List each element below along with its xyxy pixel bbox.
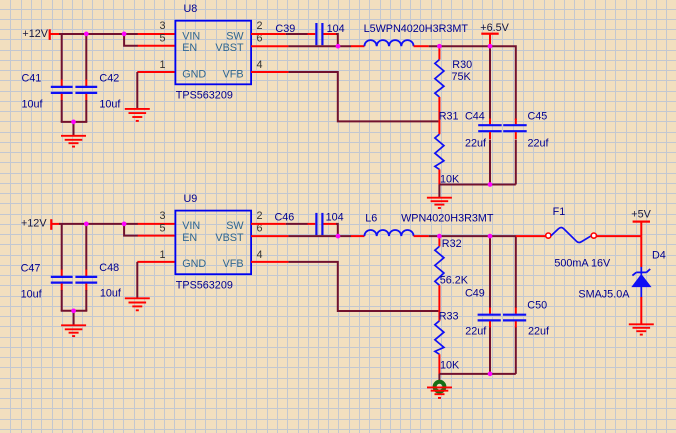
wire ground stub bbox=[73, 122, 75, 136]
ground GND2 bbox=[125, 109, 150, 121]
node junction J10 bbox=[71, 308, 76, 313]
wire L5 to rail bbox=[429, 45, 490, 47]
svg-text:GND: GND bbox=[182, 68, 206, 80]
power port +6.5V bbox=[480, 22, 509, 46]
wire +12V rail (top) bbox=[59, 33, 138, 35]
capacitor C45 bbox=[503, 119, 527, 140]
wire caps bottom rail (bottom) bbox=[61, 310, 88, 312]
svg-text:104: 104 bbox=[326, 212, 344, 224]
svg-text:SW: SW bbox=[226, 30, 244, 42]
svg-text:10uf: 10uf bbox=[21, 289, 43, 301]
svg-text:+6.5V: +6.5V bbox=[480, 22, 509, 34]
svg-text:R33: R33 bbox=[439, 311, 459, 323]
wire C47 bottom lead bbox=[61, 290, 63, 311]
capacitor C48 bbox=[75, 270, 97, 291]
ground GND3 bbox=[427, 198, 452, 208]
resistor R33 bbox=[435, 311, 444, 374]
svg-text:2: 2 bbox=[257, 20, 263, 32]
wire SW to C46 bbox=[286, 223, 308, 225]
resistor R30 bbox=[435, 46, 444, 134]
inductor L6 bbox=[351, 230, 429, 236]
node junction J2 bbox=[122, 32, 127, 37]
svg-text:22uf: 22uf bbox=[465, 137, 487, 149]
svg-text:C45: C45 bbox=[528, 110, 548, 122]
node junction J9 bbox=[122, 222, 127, 227]
svg-text:U8: U8 bbox=[184, 3, 198, 15]
svg-text:WPN4020H3R3MT: WPN4020H3R3MT bbox=[401, 212, 494, 224]
capacitor C46 bbox=[308, 213, 337, 235]
diode D4 TVS bbox=[632, 267, 650, 297]
svg-text:TPS563209: TPS563209 bbox=[176, 280, 233, 292]
wire bottom rail (bottom circuit) bbox=[439, 373, 515, 375]
svg-text:1: 1 bbox=[159, 59, 165, 71]
svg-text:C44: C44 bbox=[465, 110, 485, 122]
wire C50 drop bbox=[515, 236, 517, 308]
svg-text:D4: D4 bbox=[652, 250, 666, 262]
svg-text:10uf: 10uf bbox=[100, 288, 122, 300]
power port +12V (bottom) bbox=[21, 217, 60, 229]
pin 6 VBST bbox=[251, 45, 288, 47]
svg-text:SMAJ5.0A: SMAJ5.0A bbox=[578, 289, 630, 301]
fuse F1 bbox=[516, 228, 642, 243]
wire C42 bottom lead bbox=[85, 100, 87, 122]
wire C48 bottom lead bbox=[85, 290, 87, 311]
svg-text:10uf: 10uf bbox=[22, 99, 44, 111]
svg-text:C42: C42 bbox=[99, 73, 119, 85]
capacitor C44 bbox=[478, 119, 502, 140]
node junction J7 bbox=[488, 182, 493, 187]
svg-text:104: 104 bbox=[327, 23, 345, 35]
svg-text:2: 2 bbox=[257, 210, 263, 222]
svg-text:4: 4 bbox=[257, 59, 263, 71]
svg-text:VFB: VFB bbox=[223, 68, 244, 80]
svg-text:L6: L6 bbox=[365, 212, 377, 224]
svg-text:VFB: VFB bbox=[223, 258, 244, 270]
svg-text:10uf: 10uf bbox=[99, 99, 121, 111]
wire bottom rail (top circuit) bbox=[439, 184, 515, 186]
svg-text:R31: R31 bbox=[439, 110, 459, 122]
pin 2 SW bbox=[251, 33, 286, 35]
resistor R31 bbox=[435, 134, 444, 184]
wire ground stub R33 bbox=[438, 374, 440, 381]
svg-text:C50: C50 bbox=[527, 300, 547, 312]
wire VBST node (bottom) bbox=[288, 235, 351, 237]
svg-text:VIN: VIN bbox=[182, 220, 200, 232]
resistor R32 bbox=[435, 236, 444, 311]
pin 6 VBST bbox=[251, 235, 288, 237]
capacitor C49 bbox=[478, 308, 501, 329]
svg-text:4: 4 bbox=[257, 249, 263, 261]
pin 3 VIN bbox=[138, 33, 176, 35]
svg-text:+5V: +5V bbox=[631, 208, 651, 220]
svg-text:C48: C48 bbox=[99, 262, 119, 274]
node junction J3 bbox=[71, 120, 76, 125]
wire GND pin to ground bbox=[136, 72, 138, 109]
ground GND5 bbox=[125, 298, 150, 310]
pin 3 VIN bbox=[138, 223, 176, 225]
ground GND6 earth ring bbox=[427, 382, 452, 398]
capacitor C47 bbox=[51, 270, 73, 291]
svg-text:500mA 16V: 500mA 16V bbox=[554, 258, 611, 270]
wire C41 bottom lead bbox=[61, 100, 63, 122]
pin 4 VFB bbox=[251, 261, 288, 263]
wire C44 bottom bbox=[489, 140, 491, 185]
node junction J1 bbox=[84, 32, 89, 37]
svg-text:SW: SW bbox=[226, 220, 244, 232]
wire ground stub bbox=[73, 311, 75, 325]
ground GND4 bbox=[61, 325, 86, 336]
wire caps bottom rail (top) bbox=[61, 121, 88, 123]
wire C42 top lead bbox=[85, 34, 87, 80]
svg-text:VBST: VBST bbox=[215, 232, 244, 244]
svg-text:+12V: +12V bbox=[21, 217, 47, 229]
wire VFB feedback (bottom) bbox=[288, 262, 438, 311]
pin 5 EN bbox=[138, 235, 176, 237]
svg-text:C41: C41 bbox=[22, 73, 42, 85]
wire C46 drop to VBST bbox=[336, 224, 338, 236]
svg-text:56.2K: 56.2K bbox=[440, 275, 469, 287]
wire rail to C45 drop bbox=[490, 46, 516, 120]
wire +5V to D4 bbox=[640, 236, 642, 267]
wire C49 bottom bbox=[489, 328, 491, 374]
power port +5V bbox=[631, 208, 651, 236]
svg-text:C39: C39 bbox=[275, 23, 295, 35]
wire C41 top lead bbox=[61, 34, 63, 80]
wire VBST node bbox=[288, 45, 351, 47]
wire C50 bottom bbox=[515, 328, 517, 374]
svg-text:EN: EN bbox=[182, 42, 197, 54]
svg-text:C47: C47 bbox=[21, 263, 41, 275]
node junction J13 bbox=[488, 234, 493, 239]
svg-text:F1: F1 bbox=[553, 206, 566, 218]
power port +12V (top) bbox=[22, 28, 59, 40]
wire C47 top lead bbox=[61, 224, 63, 270]
wire VFB feedback (top) bbox=[288, 72, 438, 121]
node junction J6 bbox=[488, 44, 493, 49]
ground GND1 bbox=[61, 136, 86, 147]
inductor L5 bbox=[351, 40, 429, 46]
wire ground stub R31 bbox=[438, 185, 440, 198]
capacitor C39 bbox=[308, 23, 337, 45]
capacitor C50 bbox=[503, 308, 526, 329]
node junction J12 bbox=[437, 234, 442, 239]
svg-text:10K: 10K bbox=[440, 360, 460, 372]
svg-text:22uf: 22uf bbox=[528, 137, 550, 149]
wire EN drop (bottom) bbox=[124, 224, 138, 236]
node junction J4 bbox=[336, 44, 341, 49]
capacitor C41 bbox=[51, 80, 73, 101]
svg-text:GND: GND bbox=[182, 258, 206, 270]
wire L6 to fuse bbox=[429, 235, 517, 237]
op-amp U9 TPS563209 bbox=[175, 193, 251, 291]
svg-text:75K: 75K bbox=[452, 71, 472, 83]
node junction J5 bbox=[437, 44, 442, 49]
wire D4 to ground bbox=[640, 297, 642, 324]
node junction J11 bbox=[336, 234, 341, 239]
wire GND pin to ground (bottom) bbox=[136, 262, 138, 298]
svg-text:5: 5 bbox=[159, 33, 165, 45]
svg-text:1: 1 bbox=[159, 249, 165, 261]
svg-text:L5WPN4020H3R3MT: L5WPN4020H3R3MT bbox=[364, 23, 469, 35]
svg-text:R32: R32 bbox=[442, 238, 462, 250]
op-amp U8 TPS563209 bbox=[175, 3, 251, 102]
svg-text:3: 3 bbox=[159, 210, 165, 222]
svg-text:5: 5 bbox=[159, 223, 165, 235]
svg-text:R30: R30 bbox=[452, 59, 472, 71]
pin 4 VFB bbox=[251, 71, 288, 73]
svg-text:TPS563209: TPS563209 bbox=[176, 90, 233, 102]
wire SW to C39 bbox=[286, 33, 308, 35]
pin 5 EN bbox=[138, 45, 176, 47]
svg-text:EN: EN bbox=[182, 232, 197, 244]
svg-text:C49: C49 bbox=[465, 288, 485, 300]
wire C48 top lead bbox=[85, 224, 87, 270]
svg-text:VBST: VBST bbox=[215, 42, 244, 54]
wire C45 bottom bbox=[515, 140, 517, 185]
wire EN drop bbox=[124, 34, 138, 46]
wire C49 drop bbox=[489, 236, 491, 308]
svg-text:22uf: 22uf bbox=[465, 325, 487, 337]
wire +12V rail (bottom) bbox=[59, 223, 138, 225]
wire C39 drop to VBST bbox=[336, 34, 338, 46]
pin 1 GND bbox=[137, 71, 175, 73]
svg-text:VIN: VIN bbox=[182, 30, 200, 42]
svg-text:U9: U9 bbox=[184, 193, 198, 205]
svg-text:22uf: 22uf bbox=[528, 325, 550, 337]
node junction J14 bbox=[488, 372, 493, 377]
pin 2 SW bbox=[251, 223, 286, 225]
node junction J8 bbox=[84, 222, 89, 227]
svg-text:3: 3 bbox=[159, 20, 165, 32]
svg-text:C46: C46 bbox=[275, 212, 295, 224]
wire C44 drop bbox=[489, 46, 491, 120]
ground GND7 bbox=[629, 324, 654, 334]
capacitor C42 bbox=[75, 80, 97, 101]
pin 1 GND bbox=[137, 261, 175, 263]
svg-text:+12V: +12V bbox=[22, 28, 48, 40]
